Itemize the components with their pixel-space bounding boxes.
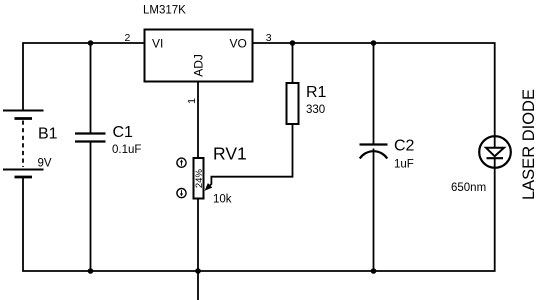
svg-text:24%: 24% [194,169,205,189]
wire R1 bottom to RV1 wiper [211,124,292,185]
svg-text:C1: C1 [113,124,134,141]
capacitor C2 (polarized) [360,145,388,159]
svg-text:0.1uF: 0.1uF [112,144,141,156]
potentiometer RV1 body [194,158,204,199]
laser diode D1 [479,136,511,168]
node junction bottom rail / C1 [88,268,94,274]
svg-text:650nm: 650nm [451,182,486,194]
svg-text:2: 2 [125,32,131,44]
capacitor C1 [75,134,106,142]
wire C1 top branch [90,43,92,133]
svg-text:VO: VO [230,37,247,51]
svg-text:B1: B1 [38,126,58,143]
wire top rail right (VO pin to laser diode) [253,43,495,148]
RV1 decrease annotation (circled down arrow) [177,189,186,198]
svg-text:VI: VI [152,37,163,51]
wire C2 bottom branch [373,149,375,272]
svg-text:10k: 10k [213,194,232,206]
svg-text:LM317K: LM317K [143,5,186,17]
svg-text:ADJ: ADJ [191,54,205,77]
svg-text:1uF: 1uF [394,159,414,171]
svg-text:330: 330 [306,104,325,116]
svg-text:C2: C2 [394,138,415,155]
svg-text:LASER DIODE: LASER DIODE [520,89,538,200]
node junction VI rail / C1 [88,40,94,46]
wire R1 top branch [292,43,294,84]
battery B1 [3,111,44,178]
svg-text:R1: R1 [306,84,327,101]
regulator U1 LM317K body [145,30,253,82]
resistor R1 [287,83,299,124]
RV1 increase annotation (circled up arrow) [177,158,186,167]
svg-text:1: 1 [186,98,198,104]
wire bottom rail (battery - to laser diode cathode) [23,159,495,272]
node junction bottom rail / C2 [371,268,377,274]
wire ADJ pin to RV1 [197,81,199,158]
node junction VO rail / C2 [371,40,377,46]
svg-text:RV1: RV1 [213,144,247,164]
wire C1 bottom branch [90,142,92,272]
wire top rail left (battery + to VI pin) [23,43,145,110]
svg-text:9V: 9V [38,158,52,170]
svg-text:3: 3 [266,32,272,44]
node junction VO rail / R1 [290,40,296,46]
node junction bottom rail / RV1 [195,268,201,274]
wire RV1 bottom to rail and image edge [197,199,199,300]
wire C2 top branch [373,43,375,144]
wiper arrowhead [205,183,213,191]
